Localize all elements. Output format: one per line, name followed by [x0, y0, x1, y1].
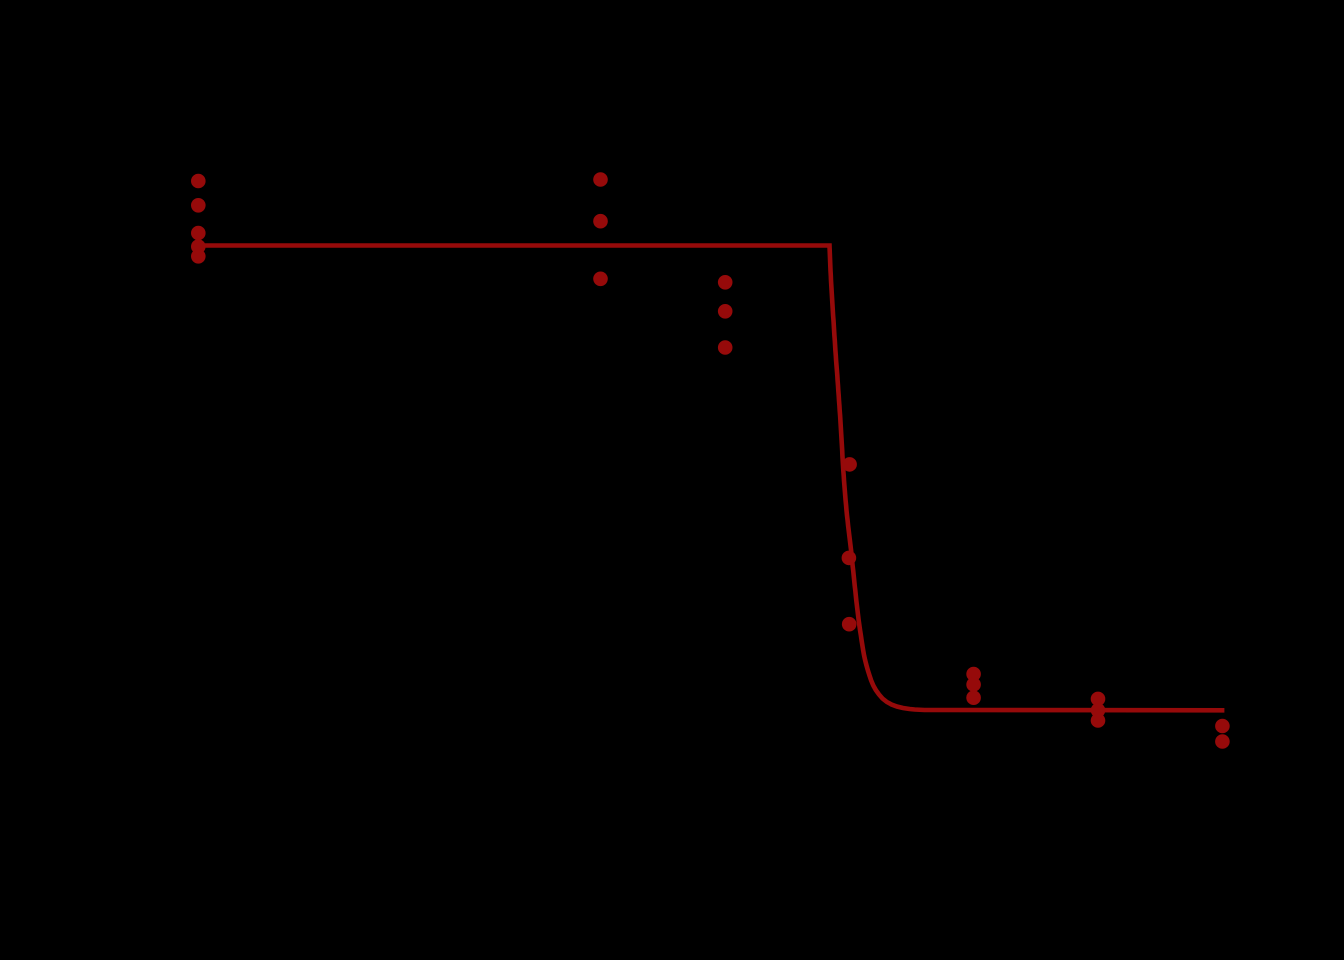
data point dose 2 replicate 2	[593, 214, 608, 229]
data point dose 5 replicate 1	[966, 667, 981, 682]
data point dose 2 replicate 3	[593, 272, 608, 287]
data point dose 2 replicate 1	[593, 172, 608, 187]
data point dose 1 replicate 3	[191, 226, 206, 241]
data point dose 6 replicate 2	[1091, 703, 1106, 718]
data point dose 4 replicate 1	[842, 457, 857, 472]
data point dose 7 replicate 1	[1215, 719, 1230, 734]
data point dose 4 replicate 2	[842, 551, 857, 566]
data point dose 3 replicate 2	[718, 304, 733, 319]
data point dose 1 replicate 4	[191, 239, 206, 254]
data point dose 7 replicate 2	[1215, 734, 1230, 749]
data point dose 1 replicate 5	[191, 249, 206, 264]
fitted dose-response curve	[199, 246, 1224, 711]
data point dose 5 replicate 2	[966, 677, 981, 692]
data point dose 1 replicate 2	[191, 198, 206, 213]
data point dose 3 replicate 1	[718, 275, 733, 290]
data point dose 6 replicate 3	[1091, 713, 1106, 728]
data point dose 3 replicate 3	[718, 340, 733, 355]
data point dose 6 replicate 1	[1091, 692, 1106, 707]
data point dose 5 replicate 3	[966, 690, 981, 705]
data point dose 1 replicate 1	[191, 174, 206, 189]
data point dose 4 replicate 3	[842, 617, 857, 632]
